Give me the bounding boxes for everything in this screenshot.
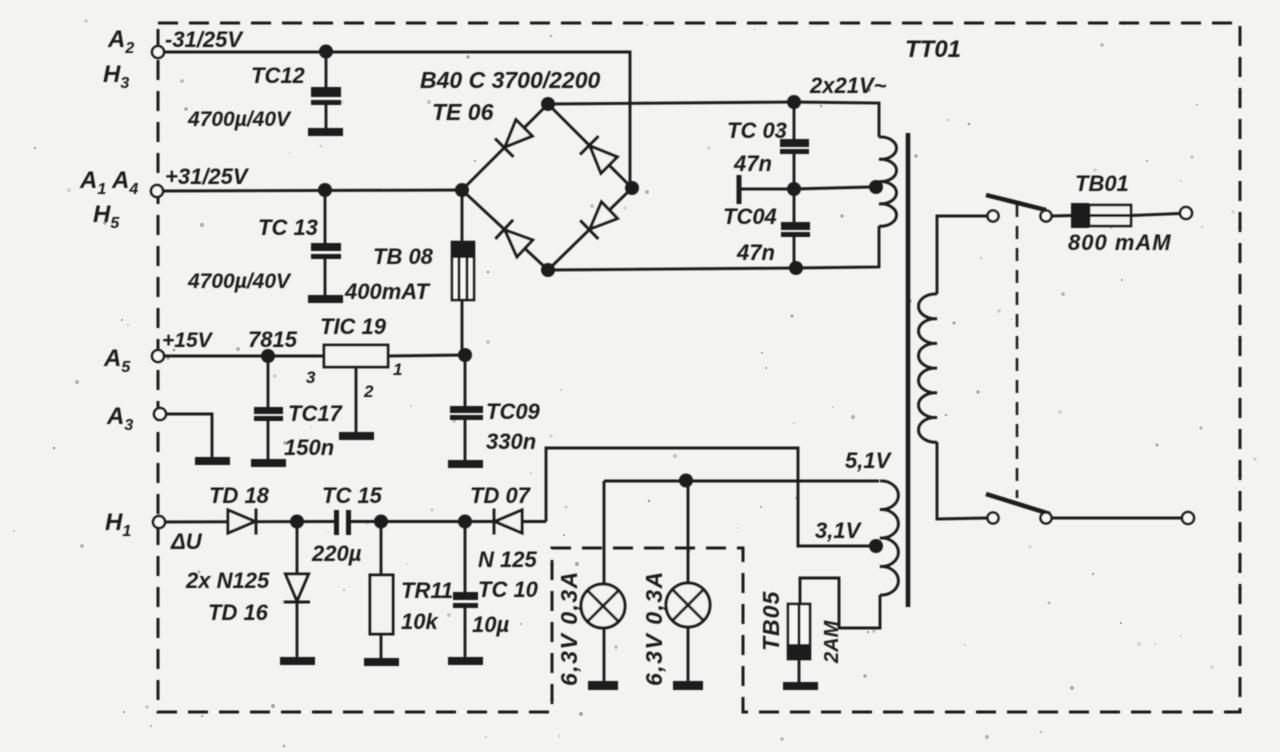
wire lower switch to terminal bbox=[1052, 517, 1182, 520]
svg-text:TC12: TC12 bbox=[251, 63, 306, 88]
diode bridge lower-left bbox=[495, 220, 533, 258]
ground regulator pin2 bbox=[339, 432, 374, 440]
wire H1 row right of TC15 bbox=[351, 520, 546, 523]
ground TC12 bbox=[308, 128, 343, 136]
svg-text:-31/25V: -31/25V bbox=[165, 27, 244, 52]
svg-text:TD 07: TD 07 bbox=[470, 483, 532, 508]
svg-text:TD 18: TD 18 bbox=[209, 483, 270, 508]
wire regulator input bbox=[388, 355, 465, 356]
wire TD16 branch bbox=[296, 522, 299, 579]
wire TR11 branch bbox=[380, 522, 383, 576]
svg-text:6,3V 0,3A: 6,3V 0,3A bbox=[556, 570, 582, 686]
wire TC09 leads bbox=[464, 355, 467, 407]
svg-text:3: 3 bbox=[306, 368, 316, 387]
svg-text:TC 03: TC 03 bbox=[727, 118, 787, 143]
wire top switch to fuse TB01 bbox=[1052, 214, 1071, 217]
svg-text:N 125: N 125 bbox=[478, 547, 537, 572]
ground TC13 bbox=[308, 295, 343, 303]
svg-text:47n: 47n bbox=[736, 240, 775, 265]
transformer secondary winding 2x21V bbox=[879, 137, 897, 226]
svg-text:220µ: 220µ bbox=[311, 541, 362, 566]
fuse TB05 bbox=[788, 604, 810, 659]
ground TR11 bbox=[364, 658, 399, 666]
lamp L2 bbox=[666, 583, 710, 627]
fuse TB01 bbox=[1071, 203, 1089, 228]
terminal A5 bbox=[152, 350, 164, 362]
svg-text:ΔU: ΔU bbox=[170, 529, 203, 554]
wire TC17 leads bbox=[267, 356, 270, 408]
terminal mains bottom bbox=[1182, 512, 1194, 524]
svg-text:TIC 19: TIC 19 bbox=[320, 314, 387, 339]
wire primary to top switch bbox=[937, 216, 987, 294]
svg-text:TR11: TR11 bbox=[401, 578, 453, 603]
svg-text:400mAT: 400mAT bbox=[344, 279, 431, 304]
wire TC04 leads bbox=[793, 189, 796, 223]
capacitor TC10 bbox=[453, 592, 478, 600]
ground TC17 bbox=[251, 459, 286, 467]
terminal mains top bbox=[1180, 207, 1192, 219]
wire H1 row left bbox=[159, 520, 334, 523]
ground lamp L1 bbox=[588, 681, 618, 690]
svg-text:TE 06: TE 06 bbox=[432, 99, 494, 125]
svg-text:TC 10: TC 10 bbox=[478, 577, 539, 602]
svg-text:5,1V: 5,1V bbox=[845, 448, 893, 473]
svg-text:TB 08: TB 08 bbox=[373, 244, 434, 269]
wire primary bottom to lower switch bbox=[937, 442, 987, 519]
svg-text:TC17: TC17 bbox=[288, 401, 344, 426]
diode TD07 bbox=[494, 509, 522, 535]
svg-text:TC09: TC09 bbox=[486, 399, 541, 424]
wire bridge bottom output to transformer bbox=[548, 226, 879, 270]
switch S2 blade bbox=[986, 494, 1050, 514]
fuse TB08 bbox=[452, 242, 474, 300]
svg-text:10k: 10k bbox=[401, 609, 439, 634]
wire TC13 leads bbox=[324, 190, 327, 244]
switch S1 blade bbox=[986, 195, 1046, 210]
svg-text:+31/25V: +31/25V bbox=[165, 164, 250, 189]
bridge rectifier TE06 diamond bbox=[462, 104, 632, 270]
wire delta-U to 3.1V tap bbox=[546, 448, 872, 546]
capacitor TC04 bbox=[781, 222, 810, 230]
ground TC10 bbox=[448, 657, 483, 665]
svg-text:47n: 47n bbox=[733, 151, 772, 176]
capacitor TC03 bbox=[780, 139, 809, 147]
switch S2 contacts bbox=[988, 513, 999, 524]
ground lamp L2 bbox=[673, 681, 703, 690]
svg-text:TC 13: TC 13 bbox=[258, 215, 318, 240]
wire A3 stub bbox=[160, 414, 212, 457]
svg-text:TC04: TC04 bbox=[723, 204, 777, 229]
svg-text:330n: 330n bbox=[486, 429, 536, 454]
svg-text:7815: 7815 bbox=[248, 327, 298, 352]
transformer primary winding bbox=[918, 294, 937, 442]
svg-text:150n: 150n bbox=[284, 435, 334, 460]
switch S1 contacts bbox=[988, 211, 999, 222]
ground TB05 bbox=[783, 682, 818, 690]
junction node dots bbox=[319, 45, 333, 59]
terminal H1 bbox=[153, 516, 165, 528]
capacitor TC15 bbox=[334, 510, 339, 535]
terminal A1A4/H5 bbox=[151, 185, 163, 197]
terminal A2/H3 bbox=[152, 46, 164, 58]
diode TD18 bbox=[228, 509, 256, 535]
transformer secondary winding 5.1/3.1V bbox=[880, 481, 898, 595]
capacitor TC13 bbox=[311, 243, 341, 251]
wire +15V rail bbox=[158, 355, 324, 358]
wire +31/25V rail bbox=[157, 190, 462, 191]
wire TB08 branch bbox=[461, 190, 464, 355]
wire regulator pin2 to ground bbox=[355, 367, 358, 432]
svg-text:+15V: +15V bbox=[162, 329, 214, 352]
regulator U TIC19 7815 bbox=[324, 345, 388, 367]
wire TC10 branch bbox=[464, 522, 467, 593]
svg-text:TB01: TB01 bbox=[1075, 171, 1129, 196]
svg-text:3,1V: 3,1V bbox=[815, 518, 863, 543]
diode bridge upper-right bbox=[580, 136, 618, 174]
switch mechanical link dashed bbox=[1016, 204, 1019, 498]
terminal A3 bbox=[154, 408, 166, 420]
wire lamp1 stems bbox=[603, 481, 606, 584]
transformer core bbox=[906, 133, 911, 607]
svg-text:TD 16: TD 16 bbox=[208, 600, 269, 625]
svg-text:10µ: 10µ bbox=[472, 612, 509, 637]
svg-text:6,3V 0,3A: 6,3V 0,3A bbox=[641, 570, 667, 686]
wire bridge top output to transformer bbox=[548, 102, 879, 137]
lamp L1 bbox=[581, 584, 625, 628]
svg-text:TB05: TB05 bbox=[758, 591, 784, 651]
dashed enclosure border TT01 box bbox=[158, 23, 1240, 712]
svg-text:2: 2 bbox=[363, 382, 374, 401]
wire lamp2 stems bbox=[687, 480, 690, 583]
wire -31/25V rail bbox=[158, 52, 630, 188]
node end bar bbox=[737, 175, 742, 204]
svg-text:4700µ/40V: 4700µ/40V bbox=[187, 108, 292, 131]
diode bridge lower-right bbox=[580, 201, 618, 239]
svg-text:2x N125: 2x N125 bbox=[185, 568, 270, 593]
svg-text:2AM: 2AM bbox=[821, 619, 843, 664]
ground A3 bbox=[195, 457, 230, 465]
diode bridge upper-left bbox=[495, 119, 533, 157]
svg-text:B40 C 3700/2200: B40 C 3700/2200 bbox=[420, 67, 601, 93]
svg-text:TC 15: TC 15 bbox=[322, 483, 383, 508]
wire fuse TB01 to terminal bbox=[1131, 214, 1180, 216]
capacitor TC12 bbox=[311, 87, 341, 97]
svg-text:2x21V~: 2x21V~ bbox=[809, 73, 887, 98]
wire 5.1V to lamps bbox=[604, 480, 879, 483]
wire TC12 leads bbox=[325, 52, 328, 88]
wire mid tap with end bar bbox=[741, 188, 794, 191]
svg-text:4700µ/40V: 4700µ/40V bbox=[187, 270, 292, 293]
svg-text:TT01: TT01 bbox=[905, 36, 961, 63]
svg-text:1: 1 bbox=[393, 360, 402, 379]
capacitor TC09 bbox=[450, 406, 483, 413]
diode TD16 bbox=[284, 574, 310, 602]
wire TB05 link from winding bottom bbox=[800, 578, 880, 628]
capacitor TC17 bbox=[254, 407, 283, 414]
ground TD16 bbox=[280, 657, 315, 665]
resistor TR11 bbox=[370, 575, 393, 634]
ground TC09 bbox=[448, 460, 483, 468]
wire TB05 to ground bbox=[798, 659, 801, 682]
svg-text:800 mAM: 800 mAM bbox=[1068, 230, 1172, 255]
wire TC03 leads bbox=[793, 102, 796, 140]
